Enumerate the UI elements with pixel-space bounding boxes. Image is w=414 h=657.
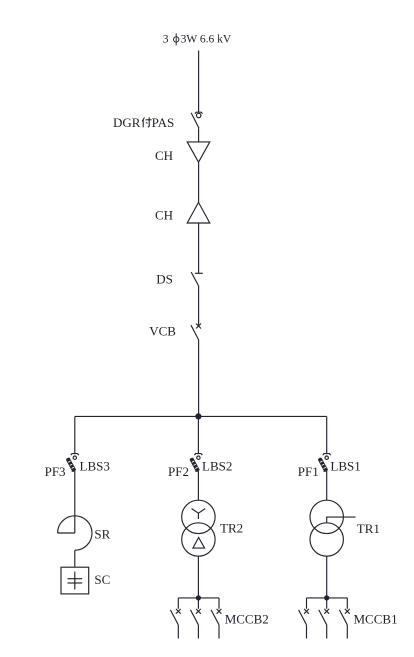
svg-text:PF1: PF1 xyxy=(298,464,319,479)
svg-text:MCCB2: MCCB2 xyxy=(225,612,269,627)
phi symbol of title xyxy=(174,33,179,45)
label DGR付PAS xyxy=(113,115,174,130)
wire LBS3 to SR xyxy=(74,471,76,533)
wire CH2 to DS xyxy=(198,223,200,273)
wire SR to SC xyxy=(74,550,76,567)
svg-text:DS: DS xyxy=(156,272,173,287)
fused load-break switch LBS1 with PF1 xyxy=(318,454,330,472)
wire CH1 to CH2 xyxy=(198,162,200,202)
reactor SR xyxy=(58,516,92,550)
svg-text:VCB: VCB xyxy=(149,324,176,339)
svg-text:3: 3 xyxy=(163,34,169,46)
wire bus to LBS1 xyxy=(326,416,328,453)
wire LBS1 to TR1 xyxy=(326,471,328,500)
transformer TR1 xyxy=(310,500,356,556)
cable head CH2 (up triangle) xyxy=(187,202,210,223)
disconnect switch DS xyxy=(191,272,203,287)
wire LBS2 to TR2 xyxy=(197,471,199,500)
wire from source to PAS xyxy=(198,51,200,113)
cable head CH1 (down triangle) xyxy=(187,142,210,162)
wire TR2 to MCCB2 xyxy=(197,556,199,598)
wire bus to LBS3 xyxy=(74,416,76,453)
wire DS to VCB xyxy=(198,287,200,326)
label 3phase 3W 6.6kV xyxy=(163,34,232,46)
svg-text:CH: CH xyxy=(155,208,173,223)
svg-text:SC: SC xyxy=(94,572,110,587)
svg-text:PF2: PF2 xyxy=(168,464,189,479)
svg-text:TR2: TR2 xyxy=(220,521,243,536)
fused load-break switch LBS2 with PF2 xyxy=(190,454,202,472)
CJK glyph 付 (drawn) xyxy=(142,117,151,127)
svg-text:PF3: PF3 xyxy=(45,464,66,479)
svg-text:DGR: DGR xyxy=(113,115,141,130)
svg-text:LBS2: LBS2 xyxy=(202,459,232,474)
breaker MCCB1 xyxy=(299,595,350,638)
breaker VCB xyxy=(191,324,201,341)
capacitor SC (boxed) xyxy=(61,567,89,594)
svg-text:LBS3: LBS3 xyxy=(80,459,110,474)
svg-text:CH: CH xyxy=(155,148,173,163)
svg-text:3W 6.6 kV: 3W 6.6 kV xyxy=(181,34,232,46)
switch PAS (DGR) xyxy=(191,112,202,128)
svg-text:LBS1: LBS1 xyxy=(330,459,360,474)
wire bus to LBS2 xyxy=(197,416,199,453)
svg-text:TR1: TR1 xyxy=(357,521,380,536)
fused load-break switch LBS3 with PF3 xyxy=(67,454,79,472)
transformer TR2 xyxy=(182,500,215,556)
breaker MCCB2 xyxy=(170,595,221,638)
wire VCB to bus xyxy=(198,340,200,416)
bus junction node xyxy=(195,413,201,419)
svg-text:SR: SR xyxy=(94,526,110,541)
svg-text:MCCB1: MCCB1 xyxy=(354,612,398,627)
svg-text:PAS: PAS xyxy=(152,115,175,130)
wire TR1 to MCCB1 xyxy=(326,556,328,598)
bus horizontal wire xyxy=(75,415,327,417)
wire PAS to CH1 xyxy=(198,128,200,142)
